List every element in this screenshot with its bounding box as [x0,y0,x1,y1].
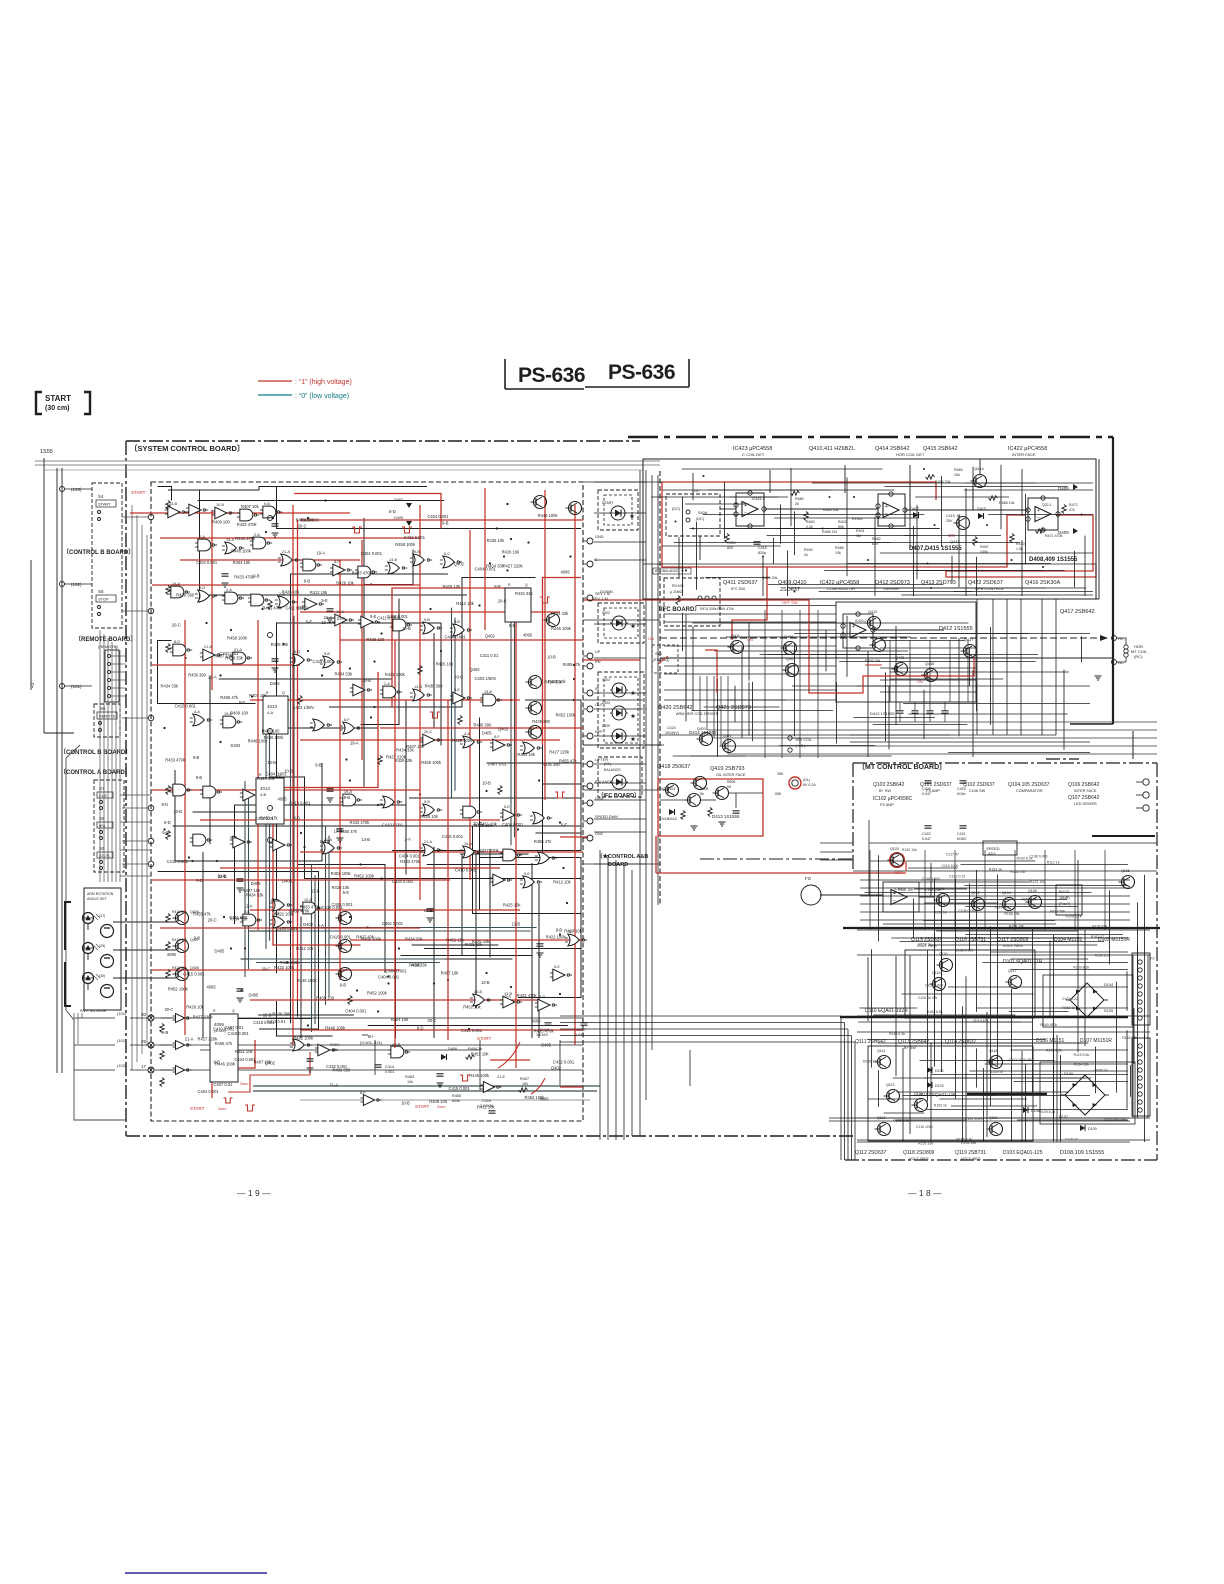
svg-text:10-B: 10-B [424,908,433,913]
svg-text:Q421: Q421 [723,734,732,738]
svg-text:〔IFC BOARD〕: 〔IFC BOARD〕 [655,605,700,613]
svg-text:VER COIL: VER COIL [795,738,812,742]
svg-text:R436 390: R436 390 [425,684,443,689]
svg-text:9-B: 9-B [414,550,420,554]
svg-text:8-D: 8-D [294,816,301,821]
svg-text:RV401: RV401 [852,517,863,521]
svg-text:START: START [45,394,71,403]
svg-text:R434 33k: R434 33k [230,917,248,922]
svg-text:〔CONTROL B BOARD〕: 〔CONTROL B BOARD〕 [60,748,131,756]
svg-text:(102): (102) [71,582,82,587]
svg-text:+: + [885,504,888,510]
svg-text:C419 .47: C419 .47 [946,514,961,518]
svg-text:10k: 10k [522,1082,528,1086]
svg-text:D406: D406 [448,1047,457,1051]
svg-text:BALANCE: BALANCE [595,780,613,784]
svg-text:(25): (25) [99,944,105,948]
svg-text:2.2k: 2.2k [806,525,813,529]
svg-text:Q119 2SB731: Q119 2SB731 [955,1150,986,1156]
svg-text:R458 100k: R458 100k [227,636,248,641]
svg-text:C415 0.001: C415 0.001 [449,1086,471,1091]
svg-text:Q415 2SB642: Q415 2SB642 [923,446,958,452]
svg-text:R455 47k: R455 47k [534,839,552,844]
svg-text:30: 30 [141,1012,147,1017]
svg-text:R433 470k: R433 470k [517,993,538,998]
svg-text:RV100: RV100 [672,584,684,588]
svg-text:R451 10k: R451 10k [235,1049,253,1054]
svg-text:10-B: 10-B [482,781,491,786]
svg-text:820p: 820p [758,551,766,555]
svg-text:C117 47: C117 47 [946,853,959,857]
svg-text:D402: D402 [303,922,314,927]
svg-text:R434 33k: R434 33k [225,655,243,660]
svg-text:R412 10k: R412 10k [310,590,328,595]
svg-text:100k: 100k [980,550,988,554]
svg-text:R436 390: R436 390 [474,722,492,727]
svg-text:BOARD: BOARD [608,862,628,868]
svg-text:5-E: 5-E [504,805,510,809]
svg-text:S10: S10 [655,652,662,656]
svg-text:8-D: 8-D [164,820,171,825]
svg-text:R457: R457 [520,1077,529,1081]
svg-text:(DC): (DC) [672,507,681,511]
svg-text:(DC): (DC) [696,517,705,521]
svg-text:OIL INTER FACE: OIL INTER FACE [716,773,746,777]
svg-text:5-E: 5-E [244,910,250,914]
svg-text:19-A: 19-A [336,610,344,614]
svg-text:OUT: OUT [595,703,604,707]
svg-text:C404 0.001: C404 0.001 [276,926,298,931]
svg-text:Q104: Q104 [1002,891,1011,895]
svg-text:R490 20k: R490 20k [762,576,778,580]
svg-text:2SD637: 2SD637 [780,587,800,593]
svg-text:C417: C417 [577,1028,586,1032]
svg-text:R433 470k: R433 470k [235,536,256,541]
svg-text:Q102: Q102 [971,891,980,895]
svg-text:C422: C422 [922,832,931,836]
svg-text:R407 10k: R407 10k [441,970,459,975]
svg-text:— 1 9 —: — 1 9 — [237,1188,271,1198]
svg-text:PS-636: PS-636 [608,361,675,384]
svg-text:R153 1k: R153 1k [934,1103,947,1107]
svg-text:B+: B+ [368,1034,374,1039]
svg-text:25V: 25V [946,519,953,523]
svg-text:R434 33k: R434 33k [335,671,353,676]
svg-text:50k: 50k [838,525,844,529]
svg-text:9-B: 9-B [196,775,203,780]
svg-text:C410 0.001: C410 0.001 [455,867,477,872]
svg-text:(101): (101) [117,1011,127,1016]
svg-text:R436 390: R436 390 [188,673,206,678]
svg-text:D412 1S1555: D412 1S1555 [870,711,895,716]
svg-text:R472: R472 [1069,503,1078,507]
svg-text:C415 0.001: C415 0.001 [461,1028,483,1033]
svg-text:R500 33k: R500 33k [865,659,881,663]
svg-text:20-C: 20-C [424,730,432,734]
svg-text:8-D: 8-D [196,878,203,883]
svg-text:REP: REP [595,730,603,734]
svg-text:Q: Q [525,583,528,587]
svg-text:+: + [852,624,855,630]
svg-text:2k: 2k [795,502,799,506]
svg-text:9-B: 9-B [304,579,311,584]
svg-text:IC423-1: IC423-1 [752,497,765,501]
svg-text:ARM ROTATION: ARM ROTATION [87,892,114,896]
svg-text:ANGLE DET: ANGLE DET [87,897,108,901]
svg-text:Q419 2SB793: Q419 2SB793 [710,766,745,772]
svg-text:(RC): (RC) [1134,654,1143,659]
svg-text:+: + [744,503,747,509]
svg-text:D402: D402 [394,498,403,502]
svg-text:Q402: Q402 [265,1061,276,1066]
svg-text:20-C: 20-C [473,821,482,826]
svg-text:BTC/BALANCE: BTC/BALANCE [655,569,679,573]
svg-text:ON: ON [648,637,654,641]
svg-text:2-A: 2-A [405,837,412,842]
svg-text:4-A: 4-A [464,732,470,736]
svg-text:START: START [98,502,111,507]
svg-text:R153 1k: R153 1k [989,867,1002,871]
svg-text:R455 47k: R455 47k [193,911,211,916]
svg-text:D408: D408 [1058,486,1069,491]
svg-text:8-F: 8-F [344,718,350,722]
svg-text:−: − [1037,516,1040,522]
svg-text:D405: D405 [270,681,281,686]
svg-text:Q113: Q113 [886,1083,895,1087]
svg-text:D405: D405 [482,731,493,736]
svg-text:9-B: 9-B [556,928,563,933]
svg-text:21-A: 21-A [337,616,346,621]
svg-text:R115 5.6k: R115 5.6k [1074,1053,1090,1057]
svg-text:R165 390: R165 390 [863,1060,878,1064]
svg-text:10-B: 10-B [362,678,371,683]
svg-text:ON: ON [917,680,923,684]
svg-text:(30 cm): (30 cm) [45,405,70,412]
svg-text:SPEED DWN: SPEED DWN [595,815,618,819]
svg-text:9-B: 9-B [193,755,200,760]
svg-text:IFC SW: IFC SW [731,586,745,591]
svg-text:R109 8.2k: R109 8.2k [1017,856,1033,860]
svg-text:19-A: 19-A [464,842,472,846]
svg-text:R426 10k: R426 10k [336,581,354,586]
svg-text:D102: D102 [935,1069,944,1073]
svg-text:D405: D405 [320,839,331,844]
svg-text:6/16V: 6/16V [957,837,967,841]
svg-text:R153 1k: R153 1k [1095,1069,1108,1073]
svg-text:NC: NC [1118,660,1124,665]
svg-text:R426 10k: R426 10k [282,590,300,595]
svg-text:R436 390: R436 390 [272,1011,290,1016]
svg-text:ADJ: ADJ [988,851,996,856]
svg-text:C404 0.001: C404 0.001 [378,975,400,980]
svg-text:RN: RN [595,660,601,664]
svg-text:C424: C424 [667,726,676,730]
svg-text:D106: D106 [1064,1072,1073,1076]
svg-text:20-C: 20-C [165,1007,174,1012]
svg-text:C421: C421 [957,832,966,836]
svg-text:21-E: 21-E [497,1075,505,1079]
svg-text:D402: D402 [231,743,242,748]
svg-text:19-A: 19-A [226,538,234,542]
svg-text:10-B: 10-B [304,898,312,902]
svg-text:DC: DC [694,488,700,493]
svg-text:R407 10k: R407 10k [243,888,261,893]
svg-text:C415 0.001: C415 0.001 [313,659,335,664]
svg-text:R426 10k: R426 10k [502,549,520,554]
svg-text:10-B: 10-B [402,626,411,631]
svg-text:VOLT. REG: VOLT. REG [961,1157,981,1161]
svg-text:5-E: 5-E [343,890,350,895]
svg-text:C404 0.001: C404 0.001 [502,822,524,827]
svg-text:R446 100k: R446 100k [538,513,559,518]
svg-text:C410 0.001: C410 0.001 [167,859,189,864]
svg-text:R465: R465 [954,468,963,472]
svg-text:−: − [893,899,896,905]
svg-text:PART NO:NONE: PART NO:NONE [80,1009,107,1013]
svg-text:R102 8.2k: R102 8.2k [1095,954,1111,958]
svg-text:C434 0.001: C434 0.001 [392,879,414,884]
svg-text:R426 10k: R426 10k [548,679,566,684]
svg-text:Q402: Q402 [454,562,465,567]
svg-text:R404 10k: R404 10k [391,1017,409,1022]
svg-text:〔SYSTEM CONTROL BOARD〕: 〔SYSTEM CONTROL BOARD〕 [130,443,244,453]
svg-text:R152 10k: R152 10k [902,848,917,852]
svg-text:R482: R482 [872,537,881,541]
svg-text:(30): (30) [99,974,105,978]
svg-text:B+ SW: B+ SW [879,789,891,793]
svg-text:PS-636: PS-636 [518,364,585,387]
svg-text:2-A: 2-A [318,923,325,928]
svg-text:START: START [602,501,614,505]
svg-text:8-D: 8-D [199,586,205,590]
svg-text:2sec: 2sec [437,1104,445,1109]
svg-text:10-B: 10-B [216,503,224,507]
svg-text:2-A: 2-A [226,588,232,592]
svg-text:R404 10k: R404 10k [233,560,251,565]
svg-text:4013: 4013 [260,786,271,791]
svg-text:R434 33k: R434 33k [246,893,264,898]
svg-text:R433 470k: R433 470k [352,571,373,576]
svg-text:R458 100k: R458 100k [421,760,442,765]
svg-text:(S1): (S1) [604,762,612,766]
svg-text:D102 EQA01-125: D102 EQA01-125 [920,1092,956,1097]
svg-text:Q116: Q116 [939,952,948,956]
svg-text:R455 47k: R455 47k [215,1041,233,1046]
svg-text:R446 100k: R446 100k [231,548,252,553]
svg-text:Q107 2SB642: Q107 2SB642 [1068,795,1100,801]
svg-text:Q410,411 HZ6BZL: Q410,411 HZ6BZL [809,446,855,452]
svg-text:Q402: Q402 [498,726,509,731]
svg-text:R452 100k: R452 100k [168,987,189,992]
svg-text:C404 0.001: C404 0.001 [198,1089,220,1094]
svg-text:R412 10k: R412 10k [456,601,474,606]
svg-text:C403 1/50V: C403 1/50V [475,676,497,681]
svg-text:R109 8.2k: R109 8.2k [1073,965,1089,969]
svg-text:R433 470k: R433 470k [400,859,421,864]
svg-text:D101 6QA01-11R: D101 6QA01-11R [1003,959,1043,965]
svg-text:R463: R463 [806,520,815,524]
svg-text:S5: S5 [98,589,104,594]
svg-text:R156 15k: R156 15k [1004,912,1019,916]
svg-text:C432 0.001: C432 0.001 [404,535,426,540]
svg-text:C415 0.001: C415 0.001 [442,834,464,839]
svg-text:4095: 4095 [531,1018,541,1023]
svg-text:LED DRIVER: LED DRIVER [1074,802,1097,806]
svg-text:Q: Q [282,691,285,695]
svg-text:R152 10k: R152 10k [898,888,913,892]
svg-text:13-B: 13-B [311,889,320,894]
svg-text:(17): (17) [99,914,105,918]
svg-text:4-B: 4-B [260,792,267,797]
svg-text:20-C: 20-C [498,598,507,603]
svg-text:19-A: 19-A [344,790,352,794]
svg-text:R407 10k: R407 10k [564,929,582,934]
svg-text:C415 0.001: C415 0.001 [228,1031,250,1036]
svg-text:8-F: 8-F [494,735,500,739]
svg-text:5-E: 5-E [554,965,560,969]
svg-text:C102 0.22: C102 0.22 [1062,997,1078,1001]
svg-text:R426 10k: R426 10k [186,1005,204,1010]
svg-text:R464 33k: R464 33k [935,480,951,484]
svg-text:4095: 4095 [411,963,421,968]
svg-text:Q417 2SB642: Q417 2SB642 [1060,609,1095,615]
svg-text:−: − [744,511,747,517]
svg-text:R422 100k: R422 100k [385,672,406,677]
svg-text:R436 390: R436 390 [301,518,319,523]
svg-text:2sec: 2sec [218,1106,226,1111]
svg-text:R427 220k: R427 220k [479,848,500,853]
svg-text:R425 10k: R425 10k [271,642,289,647]
svg-text:8-D: 8-D [162,802,169,807]
svg-text:C415: C415 [482,1099,491,1103]
svg-text:5-E: 5-E [162,830,169,835]
svg-text:5-E: 5-E [454,688,460,692]
svg-text:R436 390: R436 390 [176,593,194,598]
svg-text:C410 0.001: C410 0.001 [382,823,404,828]
svg-text:D108,109 1S1555: D108,109 1S1555 [1060,1150,1104,1156]
svg-text:19-A: 19-A [350,741,359,746]
svg-text:D405: D405 [541,1043,552,1048]
svg-text:9-B: 9-B [424,618,430,622]
svg-text:R453: R453 [405,1075,414,1079]
svg-text:20-C: 20-C [172,622,181,627]
svg-text:13-B: 13-B [173,809,182,814]
svg-text:1.5k: 1.5k [1016,547,1023,551]
svg-text:S40A: S40A [698,511,708,515]
svg-text:10-B: 10-B [284,769,293,774]
svg-text:19-A: 19-A [316,551,325,556]
svg-text:0303: 0303 [602,678,610,682]
svg-text:20-C: 20-C [208,917,217,922]
svg-text:5-E: 5-E [306,620,313,625]
svg-text:R425 10k: R425 10k [443,584,461,589]
svg-text:C416: C416 [540,1028,549,1032]
svg-text:R434 33k: R434 33k [515,591,533,596]
svg-text:S4: S4 [98,494,104,499]
svg-text:R452 100k: R452 100k [361,936,382,941]
svg-text:21-A: 21-A [208,675,217,680]
svg-text:Q103: Q103 [890,847,899,851]
svg-text:R451 10k: R451 10k [471,1052,489,1057]
svg-text:R433 470k: R433 470k [262,605,283,610]
svg-text:2k: 2k [804,553,808,557]
svg-text:0304: 0304 [602,701,610,705]
svg-text:4095: 4095 [167,952,177,957]
svg-text:Q418 250637: Q418 250637 [657,764,690,770]
svg-text:21-A: 21-A [282,550,290,554]
svg-text:BALANCE: BALANCE [604,768,621,772]
svg-text:4095: 4095 [540,1097,550,1102]
svg-text:(103): (103) [117,1063,127,1068]
svg-text:C411 0.01: C411 0.01 [267,1019,286,1024]
svg-text:C404 0.001: C404 0.001 [382,921,404,926]
svg-text:R480: R480 [795,497,804,501]
svg-text:Q415: Q415 [950,539,961,544]
svg-text:Q402: Q402 [551,1066,562,1071]
svg-text:D103: D103 [935,1084,944,1088]
svg-text:R109 8.2k: R109 8.2k [1046,1049,1062,1053]
svg-text:R452 100k: R452 100k [331,871,352,876]
svg-text:R433 470k: R433 470k [350,820,371,825]
svg-text:INTER FACE: INTER FACE [1012,452,1036,457]
svg-text:Q104,105 2SD637: Q104,105 2SD637 [1008,782,1050,788]
svg-text:10/16V: 10/16V [536,1033,549,1037]
svg-text:Q102 2SD637: Q102 2SD637 [963,782,995,788]
svg-text:D405: D405 [215,949,226,954]
svg-text:9-B: 9-B [214,1060,221,1065]
svg-text:R433 470k: R433 470k [237,522,258,527]
svg-text:2sec: 2sec [240,1081,248,1086]
svg-text:0.047: 0.047 [575,1033,585,1037]
svg-text:Q22-1: Q22-1 [1042,503,1052,507]
svg-text:〔MT CONTROL BOARD〕: 〔MT CONTROL BOARD〕 [858,763,946,771]
svg-text:R434 33k: R434 33k [161,684,179,689]
svg-text:9-B: 9-B [315,763,322,768]
svg-text:4095: 4095 [523,633,533,638]
svg-text:D407,D415 1S1555: D407,D415 1S1555 [909,546,962,552]
svg-text:C106 SW: C106 SW [969,789,986,793]
svg-text:05K: 05K [775,792,782,796]
svg-text:−: − [885,512,888,518]
svg-text:VOLT. REG: VOLT. REG [909,1157,929,1161]
svg-text:8V 0.2A: 8V 0.2A [803,783,816,787]
svg-text:C418: C418 [758,546,767,550]
svg-text:R452 100k: R452 100k [556,713,577,718]
svg-text:R422 100k: R422 100k [546,934,567,939]
svg-text:20-C: 20-C [262,967,271,972]
svg-text:820: 820 [727,546,733,550]
svg-text:Q421 2SD973: Q421 2SD973 [716,705,751,711]
svg-text:Q411: Q411 [731,634,740,638]
svg-text:10/16(V): 10/16(V) [665,731,679,735]
svg-text:620: 620 [872,542,878,546]
svg-text:R409 100: R409 100 [262,729,280,734]
svg-text:17: 17 [141,1064,147,1069]
svg-text:COMPARATOR: COMPARATOR [827,586,855,591]
svg-text:R446 100k: R446 100k [551,626,572,631]
svg-text:P7: P7 [1150,956,1156,961]
svg-text:9-B: 9-B [344,795,351,800]
svg-text:9-B: 9-B [253,574,260,579]
svg-text:R409 100: R409 100 [316,996,334,1001]
svg-text:D103 EQA01-125: D103 EQA01-125 [1003,1150,1043,1156]
svg-text:9-B: 9-B [442,521,449,526]
svg-text:START: START [415,1104,430,1109]
svg-text:R436 390: R436 390 [542,762,560,767]
svg-text:R452 100k: R452 100k [367,991,388,996]
svg-text:9-B: 9-B [162,1030,169,1035]
svg-text:R459: R459 [727,541,736,545]
